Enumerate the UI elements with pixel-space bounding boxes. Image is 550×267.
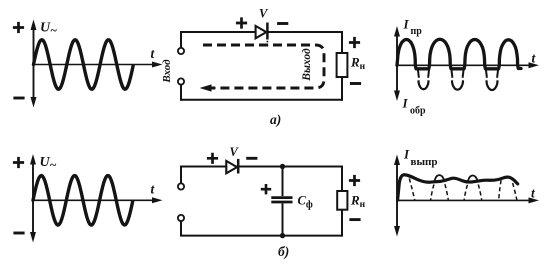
- svg-text:пр: пр: [411, 26, 423, 37]
- wire: circuit a top conductor: [181, 31, 342, 33]
- svg-text:Выход: Выход: [301, 48, 313, 82]
- wire: top-left graph time axis: [34, 64, 154, 66]
- wire: circuit a left conductor lower segment: [180, 85, 182, 101]
- wire: bottom-right graph time axis: [397, 199, 530, 201]
- svg-text:I: I: [403, 17, 410, 32]
- diode V circuit b: [226, 161, 237, 173]
- node: plus label at capacitor circuit b: [261, 184, 271, 194]
- node: input terminal lower circuit a: [178, 78, 184, 84]
- node: minus label at diode cathode circuit a: [277, 22, 288, 25]
- node: plus polarity label top-left graph: [13, 22, 24, 33]
- node: input terminal upper circuit b: [178, 183, 184, 189]
- wire: capacitor branch lower lead: [282, 203, 284, 235]
- wire: blocked reverse half-wave dip 2 (dashed): [451, 68, 464, 78]
- resistor R1 load Rn circuit a: [337, 53, 348, 77]
- node: junction dot top filter node circuit b: [280, 164, 285, 169]
- node: minus polarity label bottom-left graph: [13, 232, 24, 235]
- node: current direction arrow circuit a: [200, 84, 212, 91]
- wire: blocked reverse half-wave dip 1 (dashed): [418, 68, 430, 78]
- svg-text:Вход: Вход: [161, 59, 173, 84]
- diode V circuit a: [256, 26, 267, 38]
- wire: blocked reverse half-wave dip 3 (dashed): [486, 68, 499, 78]
- node: plus label across load circuit a: [349, 37, 360, 48]
- wire: smoothed output current ripple curve (solid): [398, 175, 518, 200]
- svg-text:U~: U~: [40, 155, 57, 172]
- node: minus label across load circuit b: [349, 218, 360, 221]
- node: plus polarity label bottom-left graph: [13, 157, 24, 168]
- wire: dashed rectified pulses under ripple: [409, 179, 517, 201]
- diode V cathode bar circuit b: [237, 159, 240, 174]
- wire: input sine waveform a: [34, 40, 134, 90]
- svg-text:U~: U~: [40, 21, 57, 38]
- capacitor C filter Cf bottom plate: [271, 201, 292, 204]
- node: input terminal lower circuit b: [178, 215, 184, 221]
- wire: input sine waveform b: [33, 176, 133, 226]
- wire: dotted drop from cathode to current path: [266, 41, 268, 46]
- node: plus label at diode anode circuit a: [236, 17, 247, 28]
- capacitor C filter Cf top plate: [271, 196, 292, 199]
- resistor R2 load Rn circuit b: [337, 191, 347, 210]
- wire: circuit b right conductor lower segment: [341, 210, 343, 237]
- node: plus label at diode anode circuit b: [207, 153, 218, 164]
- diode V cathode bar circuit a: [266, 23, 269, 40]
- svg-text:выпр: выпр: [411, 156, 438, 168]
- node: input terminal upper circuit a: [178, 48, 184, 54]
- wire: pulse top arc at second pulse: [434, 175, 444, 182]
- wire: dashed current path loop circuit a: [203, 45, 324, 88]
- wire: circuit b left conductor lower segment: [180, 221, 182, 236]
- node: minus label across load circuit a: [350, 82, 361, 85]
- node: top-right graph vertical axis: [396, 33, 398, 94]
- svg-text:обр: обр: [410, 106, 426, 117]
- node: bottom-left U~ graph vertical axis: [32, 162, 34, 235]
- wire: circuit b left conductor upper segment: [180, 166, 182, 184]
- wire: circuit a right conductor lower segment: [341, 77, 343, 101]
- node: minus polarity label top-left graph: [13, 97, 24, 100]
- svg-text:а): а): [270, 112, 281, 127]
- wire: capacitor branch upper lead: [282, 167, 284, 197]
- wire: rectified forward-current waveform (solid): [397, 39, 521, 69]
- wire: circuit b bottom conductor: [181, 235, 342, 237]
- node: minus label at diode cathode circuit b: [246, 157, 257, 160]
- node: plus label across load circuit b: [349, 175, 360, 186]
- wire: circuit b top conductor: [181, 166, 342, 168]
- wire: bottom-left graph time axis: [33, 199, 153, 201]
- svg-text:б): б): [278, 244, 289, 259]
- wire: pulse top arc at third pulse: [468, 176, 478, 183]
- wire: circuit a left conductor upper segment: [180, 31, 182, 48]
- wire: circuit a right conductor upper segment: [341, 31, 343, 53]
- svg-text:I: I: [403, 147, 410, 162]
- wire: circuit b right conductor upper segment: [341, 166, 343, 192]
- wire: top-right graph time axis: [397, 64, 530, 66]
- wire: circuit a bottom conductor: [181, 99, 342, 101]
- node: top-left U~ graph vertical axis: [33, 27, 35, 99]
- node: bottom-right graph vertical axis: [396, 162, 398, 230]
- svg-text:I: I: [402, 96, 409, 111]
- node: junction dot bottom filter node circuit b: [280, 233, 285, 238]
